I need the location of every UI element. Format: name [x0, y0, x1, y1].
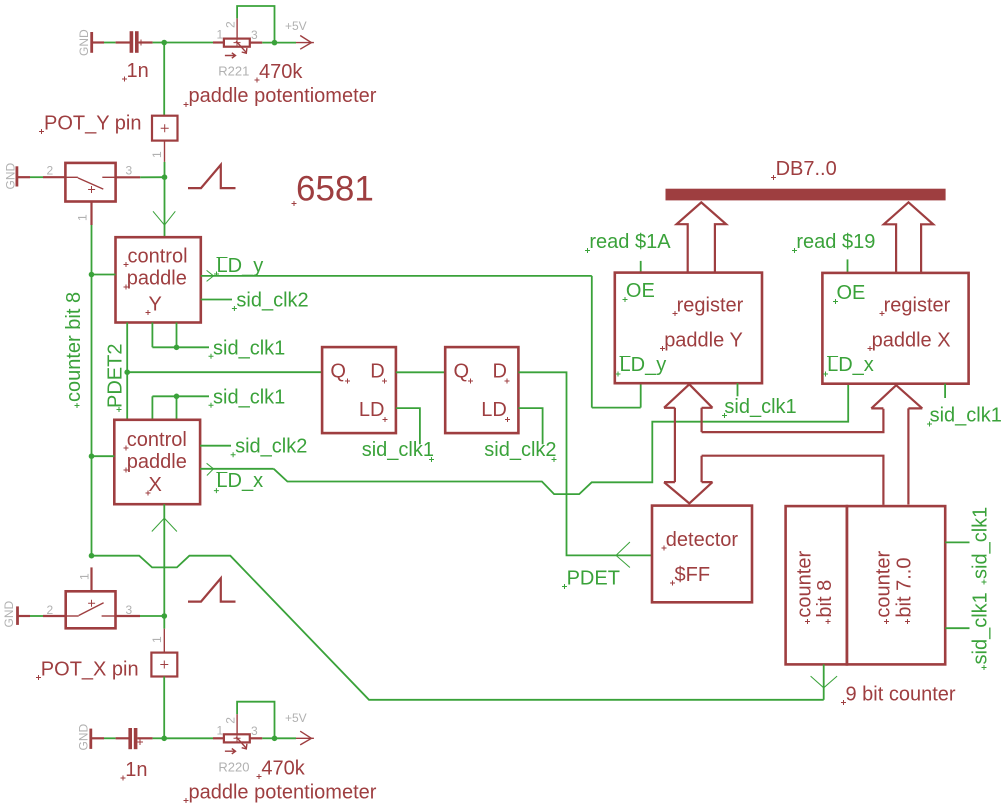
- svg-text:LD_x: LD_x: [827, 354, 874, 376]
- block register paddle Y: [615, 273, 762, 384]
- wire PDET2 to latch 1 Q: [127, 371, 322, 373]
- net sid_clk1 stubs above control X: [152, 396, 209, 420]
- node junction switch2/potX: [162, 613, 168, 619]
- node junction cap/pot wire: [161, 40, 167, 46]
- ground GND (top left): [77, 29, 92, 56]
- svg-text:6581: 6581: [296, 170, 374, 209]
- wire node down into control paddle Y with arrow: [153, 177, 175, 237]
- net sid_clk1 stub below register X: [944, 384, 946, 398]
- net sid_clk1 stub upper right of counter: [945, 541, 969, 543]
- label sid_clk1 (rotated, upper right): [970, 507, 992, 585]
- svg-text:paddle potentiometer: paddle potentiometer: [189, 85, 377, 107]
- node junction cap/pot wire (bottom): [161, 736, 167, 742]
- bus arrow register Y to DB: [677, 202, 727, 272]
- wire R221 pin2 loop to +5V rail: [237, 6, 274, 43]
- svg-text:X: X: [149, 474, 162, 496]
- block detector $FF: [652, 506, 752, 603]
- svg-text:1: 1: [76, 214, 90, 221]
- label 6581: [292, 170, 374, 209]
- svg-text:R221: R221: [218, 64, 249, 79]
- wire switch1 pin1 down (counter bit 8 net): [90, 202, 92, 556]
- value label 1n: [122, 60, 149, 82]
- switch S2: [66, 591, 116, 628]
- svg-text:sid_clk2: sid_clk2: [236, 290, 308, 312]
- wire node to R220 pin 1: [164, 737, 224, 739]
- block control paddle Y: [116, 237, 201, 322]
- svg-text:POT_Y pin: POT_Y pin: [44, 113, 141, 135]
- svg-text:1n: 1n: [125, 759, 147, 781]
- label read $19: [792, 231, 875, 253]
- wire R220 pin3 to junction: [250, 737, 262, 739]
- svg-text:D: D: [370, 361, 384, 383]
- label sid_clk1 (rotated, lower right): [970, 592, 992, 670]
- bus duct bottom boundary (shaft to counter): [702, 456, 884, 505]
- wire R221 pin3 to junction: [250, 41, 262, 43]
- wire switch2 pin3 to node: [116, 615, 165, 617]
- svg-text:LD_x: LD_x: [216, 470, 263, 492]
- pin 1 stub of POT_Y: [150, 141, 165, 162]
- label POT_Y pin: [39, 113, 141, 135]
- block counter bit 7..0: [847, 506, 945, 664]
- wire latch2 LD stub: [518, 408, 542, 444]
- label DB7..0: [771, 158, 837, 180]
- svg-text:bit 8: bit 8: [814, 580, 836, 618]
- svg-text:+5V: +5V: [285, 19, 307, 33]
- capacitor C_Y 1n: [130, 31, 144, 53]
- svg-text:9 bit counter: 9 bit counter: [846, 684, 956, 706]
- svg-text:counter bit 8: counter bit 8: [63, 292, 85, 402]
- sawtooth waveform symbol (top): [188, 165, 236, 188]
- svg-text:OE: OE: [837, 282, 866, 304]
- label LD_x (net): [214, 470, 263, 493]
- svg-text:2: 2: [47, 603, 54, 617]
- svg-text:paddle: paddle: [127, 451, 187, 473]
- label counter (bit 8 block, rotated): [794, 551, 816, 624]
- svg-text:GND: GND: [77, 29, 91, 56]
- svg-text:register: register: [884, 295, 951, 317]
- node junction sid_clk1 (lower): [174, 394, 180, 400]
- ground GND (switch 2): [2, 601, 18, 628]
- svg-text:GND: GND: [2, 601, 16, 628]
- net sid_clk2 stub at control X: [200, 445, 231, 447]
- bus DB7..0 bar: [666, 189, 946, 201]
- net sid_clk1 stubs below control Y: [152, 323, 209, 348]
- svg-text:2: 2: [224, 717, 238, 724]
- wire GND to capacitor C_Y: [92, 41, 131, 43]
- ground GND (switch 1): [4, 163, 18, 190]
- svg-text:LD: LD: [359, 399, 385, 421]
- wire latch1 D to latch2 Q: [396, 371, 445, 373]
- wire latch1 LD stub: [396, 408, 420, 444]
- wire counter bit 8 output down with arrow: [811, 664, 838, 699]
- svg-text:GND: GND: [77, 724, 91, 751]
- svg-text:counter: counter: [794, 551, 816, 618]
- label counter (bit 7..0 block, rotated): [873, 551, 895, 624]
- svg-text:1: 1: [78, 573, 92, 580]
- switch S1: [65, 163, 115, 202]
- svg-text:OE: OE: [626, 280, 655, 302]
- wire read $1A stub to register Y OE: [640, 261, 642, 273]
- bus double arrow register Y / detector: [664, 384, 713, 503]
- svg-text:sid_clk1: sid_clk1: [970, 507, 992, 579]
- wire counter bit 8 net across bottom to left rail: [92, 556, 824, 700]
- svg-text:2: 2: [47, 164, 54, 178]
- svg-text:Q: Q: [330, 361, 346, 383]
- wire GND to capacitor C_X: [91, 737, 129, 739]
- wire junction down to POT_Y pin: [163, 43, 165, 116]
- svg-text:3: 3: [251, 28, 258, 42]
- svg-text:control: control: [128, 246, 188, 268]
- node junction switch1/potY: [162, 174, 168, 180]
- wire POT_Y pin to node: [164, 162, 166, 177]
- label counter bit 8 (rotated): [63, 292, 85, 408]
- connector POT_Y pin: [152, 116, 178, 141]
- wire switch2 pin1 up to counter net: [90, 567, 92, 591]
- value label 1n (bottom): [121, 759, 148, 781]
- wire left vertical into control X: [92, 455, 115, 457]
- label PDET2 (rotated): [105, 344, 127, 412]
- resistor R220 potentiometer body: [224, 714, 250, 754]
- svg-text:sid_clk1: sid_clk1: [724, 396, 796, 418]
- net LD_y wire from control Y to register Y: [201, 270, 641, 407]
- svg-text:LD_y: LD_y: [620, 354, 667, 376]
- wire junction to +5V: [275, 42, 297, 44]
- svg-text:Q: Q: [454, 361, 470, 383]
- net sid_clk2 stub at control Y: [201, 299, 232, 301]
- bus arrow register X to DB: [884, 202, 933, 273]
- wire GND to switch2 pin2: [18, 615, 66, 617]
- label paddle potentiometer (top): [184, 85, 377, 107]
- svg-text:LD: LD: [481, 399, 507, 421]
- block control paddle X: [114, 420, 200, 504]
- svg-text:sid_clk1: sid_clk1: [213, 337, 285, 359]
- wire left vertical into control Y: [92, 274, 116, 276]
- wire control X bottom to switch2 node with up arrow: [152, 504, 177, 616]
- svg-text:DB7..0: DB7..0: [776, 158, 837, 180]
- wire junction to +5V (bottom): [275, 737, 297, 739]
- svg-text:1: 1: [150, 636, 164, 643]
- svg-text:470k: 470k: [259, 61, 303, 83]
- net sid_clk1 stub below register Y: [737, 383, 739, 396]
- capacitor C_X 1n: [128, 728, 143, 749]
- net LD_x wire from control X to register X: [200, 384, 848, 494]
- wire capacitor to node: [137, 737, 164, 739]
- svg-text:3: 3: [126, 164, 133, 178]
- svg-text:paddle: paddle: [127, 268, 187, 290]
- node junction pot/+5V: [272, 40, 278, 46]
- svg-text:sid_clk1: sid_clk1: [362, 439, 434, 461]
- ground GND (bottom): [77, 724, 91, 751]
- svg-text:sid_clk2: sid_clk2: [484, 439, 556, 461]
- wire R220 pin2 loop to +5V rail: [237, 702, 274, 739]
- svg-text:sid_clk1: sid_clk1: [213, 386, 285, 408]
- svg-text:paddle Y: paddle Y: [664, 330, 743, 352]
- svg-text:3: 3: [251, 724, 258, 738]
- svg-text:paddle X: paddle X: [872, 330, 951, 352]
- label bit 8 (rotated): [814, 580, 836, 624]
- svg-text:$FF: $FF: [675, 564, 711, 586]
- label sid_clk1 (below control Y): [209, 337, 286, 359]
- block register paddle X: [822, 273, 968, 384]
- value label 470k (bottom): [257, 758, 306, 780]
- supply +5V (top): [285, 19, 314, 49]
- svg-text:read $19: read $19: [796, 231, 875, 253]
- bus duct top boundary (shaft to register X arrow): [702, 409, 884, 432]
- svg-text:sid_clk1: sid_clk1: [930, 405, 1002, 427]
- svg-text:read $1A: read $1A: [589, 231, 671, 253]
- svg-text:POT_X pin: POT_X pin: [41, 659, 139, 681]
- svg-text:1: 1: [217, 723, 224, 737]
- svg-text:sid_clk2: sid_clk2: [235, 436, 307, 458]
- supply +5V (bottom): [285, 711, 314, 745]
- label sid_clk1 (register X): [927, 405, 1002, 427]
- node junction sid_clk1 (upper): [174, 345, 180, 351]
- svg-text:470k: 470k: [261, 758, 305, 780]
- svg-text:sid_clk1: sid_clk1: [970, 592, 992, 664]
- label 9 bit counter: [841, 684, 956, 706]
- wire GND to switch1 pin2: [17, 176, 66, 178]
- node junction pot/+5V (bottom): [272, 736, 278, 742]
- svg-text:paddle potentiometer: paddle potentiometer: [189, 782, 377, 804]
- svg-text:1n: 1n: [127, 60, 149, 82]
- bus arrow counter to register X: [871, 385, 922, 504]
- wire switch1 pin3 to node: [116, 176, 165, 178]
- svg-text:detector: detector: [666, 529, 739, 551]
- label PDET: [562, 568, 620, 590]
- pin 1 stub of POT_X: [150, 616, 164, 653]
- svg-text:D: D: [493, 361, 507, 383]
- label bit 7..0 (rotated): [894, 558, 916, 624]
- resistor R221 potentiometer body: [224, 18, 250, 58]
- label paddle potentiometer (bottom): [184, 782, 377, 804]
- label sid_clk1 (register Y): [722, 396, 797, 418]
- node junction counter-bit-8 / control X: [89, 453, 95, 459]
- net sid_clk1 stub lower right of counter: [945, 627, 969, 629]
- node junction counter bit 8 / switch2: [89, 553, 95, 559]
- svg-text:PDET: PDET: [567, 568, 620, 590]
- label sid_clk1 (above control X): [209, 386, 286, 408]
- connector POT_X pin: [151, 653, 177, 677]
- latch U2 (sid_clk2 D-latch): [445, 347, 518, 433]
- block counter bit 8: [786, 506, 847, 664]
- svg-text:register: register: [677, 295, 744, 317]
- net PDET2 vertical wire: [126, 323, 128, 420]
- svg-text:counter: counter: [873, 551, 895, 618]
- label sid_clk1 (latch1): [362, 439, 434, 462]
- svg-text:GND: GND: [4, 163, 18, 190]
- label read $1A: [585, 231, 671, 253]
- wire junction to R221 pin 1: [164, 42, 224, 44]
- svg-text:LD_y: LD_y: [217, 255, 264, 277]
- svg-text:R220: R220: [218, 760, 249, 775]
- label LD_y (net): [214, 255, 263, 277]
- wire read $19 stub to register X OE: [847, 259, 849, 273]
- sawtooth waveform symbol (bottom): [188, 578, 236, 601]
- label sid_clk2 (latch2): [484, 439, 556, 462]
- svg-text:PDET2: PDET2: [105, 344, 127, 408]
- svg-text:1: 1: [150, 151, 164, 158]
- label sid_clk2 (control X): [231, 436, 308, 458]
- svg-text:2: 2: [224, 21, 238, 28]
- label POT_X pin: [36, 659, 139, 681]
- value label 470k: [255, 61, 304, 83]
- node junction counter-bit-8 / control Y: [89, 272, 95, 278]
- wire capacitor to junction: [139, 41, 165, 43]
- svg-text:bit 7..0: bit 7..0: [894, 558, 916, 618]
- node junction PDET2: [124, 369, 130, 375]
- wire POT_X pin down to capacitor node: [163, 677, 165, 739]
- svg-text:1: 1: [217, 28, 224, 42]
- latch U1 (sid_clk1 D-latch): [322, 347, 396, 433]
- svg-text:Y: Y: [149, 294, 162, 316]
- label sid_clk2 (control Y): [232, 290, 309, 312]
- svg-text:control: control: [127, 429, 187, 451]
- net PDET wire latch2 D to detector: [518, 372, 652, 567]
- svg-text:+5V: +5V: [285, 711, 307, 725]
